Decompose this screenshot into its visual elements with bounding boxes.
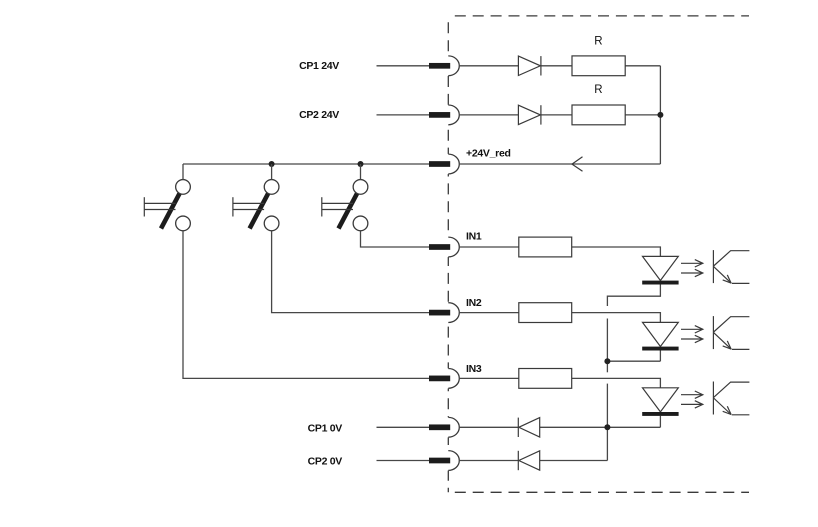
svg-text:R: R (594, 36, 602, 48)
svg-text:R: R (594, 84, 602, 96)
svg-text:CP1 24V: CP1 24V (299, 60, 339, 72)
svg-text:IN3: IN3 (466, 363, 482, 375)
svg-text:CP1 0V: CP1 0V (308, 423, 343, 435)
svg-text:IN2: IN2 (466, 297, 482, 309)
svg-text:IN1: IN1 (466, 231, 482, 243)
svg-text:CP2 0V: CP2 0V (308, 455, 343, 467)
svg-text:+24V_red: +24V_red (466, 148, 511, 160)
svg-text:CP2 24V: CP2 24V (299, 109, 339, 121)
